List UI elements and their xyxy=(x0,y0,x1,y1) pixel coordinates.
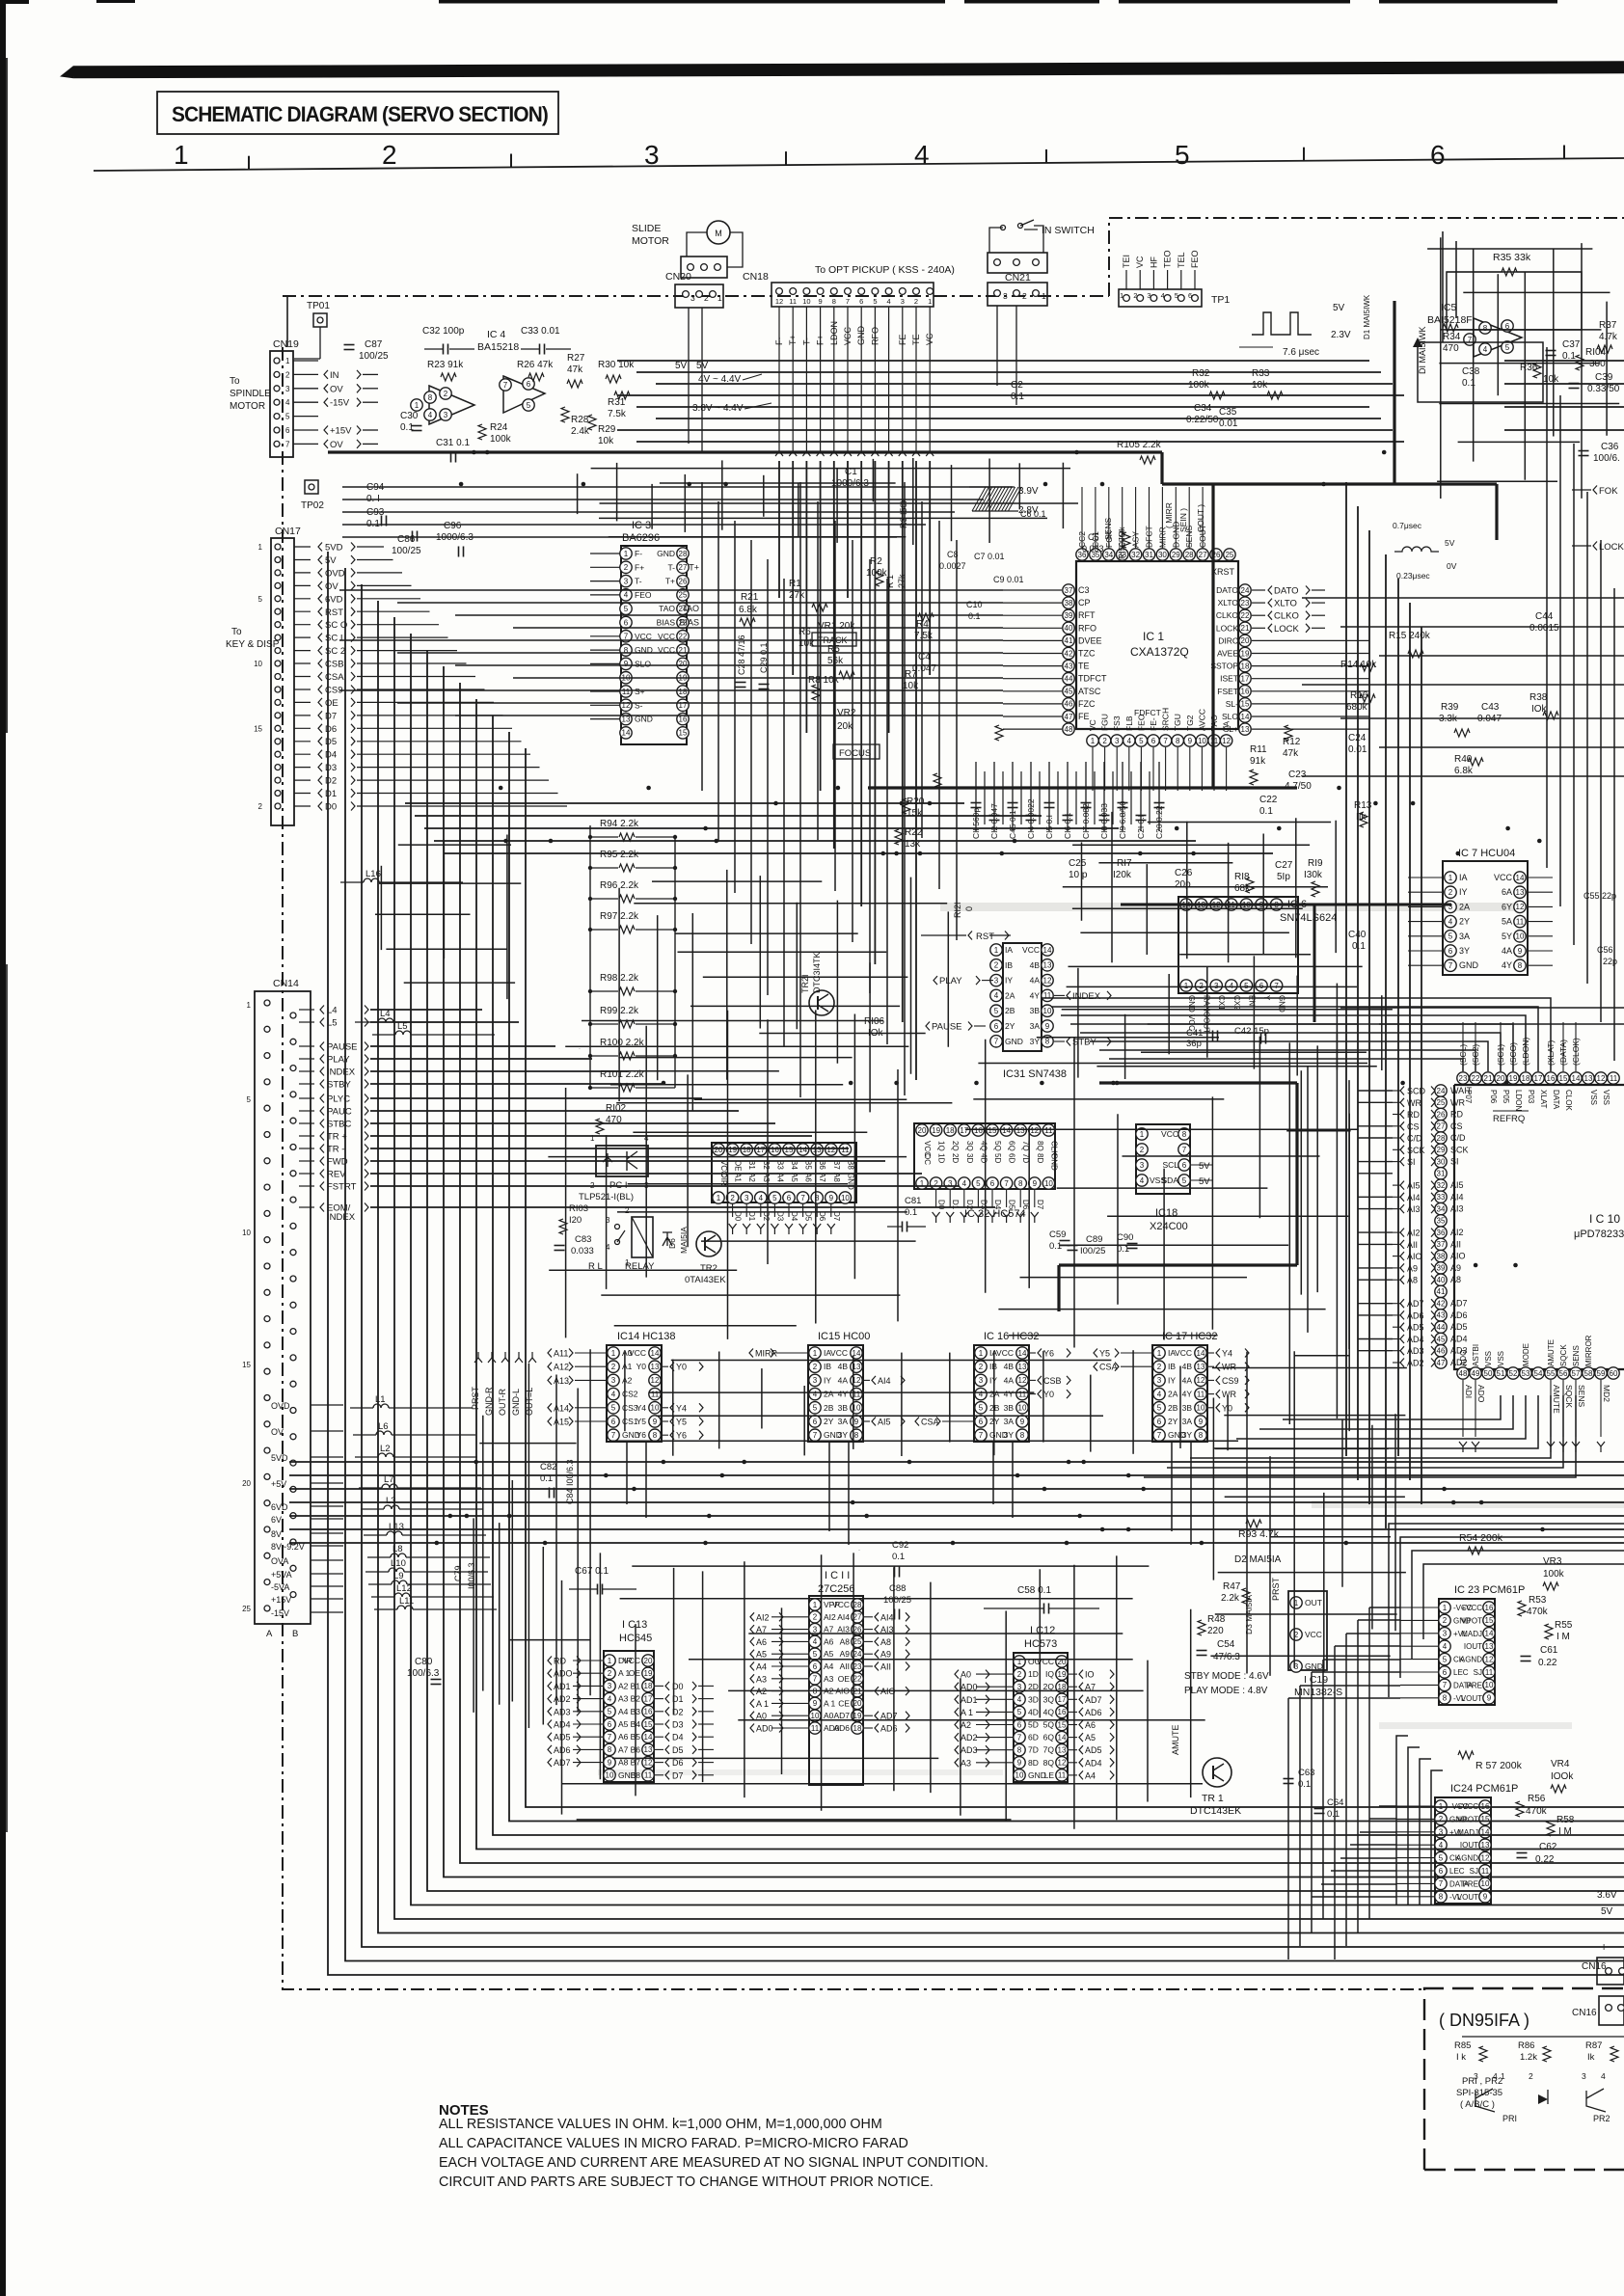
svg-text:3A: 3A xyxy=(1030,1021,1041,1031)
svg-text:1: 1 xyxy=(979,1349,984,1358)
svg-text:RI06: RI06 xyxy=(864,1016,885,1027)
svg-text:3Y: 3Y xyxy=(1004,1430,1015,1440)
svg-text:3: 3 xyxy=(1214,982,1219,990)
svg-text:10: 10 xyxy=(802,297,810,306)
svg-text:4B: 4B xyxy=(1004,1362,1015,1371)
svg-text:16: 16 xyxy=(1485,1604,1494,1612)
svg-text:A0: A0 xyxy=(961,1670,971,1680)
svg-text:R56: R56 xyxy=(1528,1794,1546,1804)
svg-text:R48: R48 xyxy=(1207,1614,1226,1625)
svg-text:PLAY: PLAY xyxy=(327,1055,350,1066)
svg-text:VCC: VCC xyxy=(832,1600,850,1609)
svg-text:17: 17 xyxy=(960,1126,968,1135)
svg-text:7.5k: 7.5k xyxy=(608,409,627,419)
svg-text:IQ: IQ xyxy=(1045,1669,1054,1679)
svg-text:VSS: VSS xyxy=(1589,1090,1598,1105)
svg-text:52: 52 xyxy=(1509,1369,1518,1378)
svg-text:15: 15 xyxy=(988,1126,997,1135)
svg-text:T+: T+ xyxy=(788,335,798,345)
svg-text:3: 3 xyxy=(611,1376,616,1385)
svg-text:PR2: PR2 xyxy=(1593,2114,1610,2123)
svg-text:6: 6 xyxy=(624,618,629,627)
svg-text:4: 4 xyxy=(1448,917,1453,926)
svg-text:2: 2 xyxy=(1133,291,1137,300)
svg-text:38: 38 xyxy=(1437,1252,1446,1260)
svg-text:7: 7 xyxy=(1017,1733,1022,1742)
svg-text:C79: C79 xyxy=(453,1565,463,1581)
svg-text:100/6.: 100/6. xyxy=(1593,453,1620,464)
svg-text:5A: 5A xyxy=(1502,917,1512,927)
svg-text:14: 14 xyxy=(1241,713,1250,721)
svg-text:WR: WR xyxy=(1450,1097,1465,1107)
svg-text:100k: 100k xyxy=(1188,380,1210,391)
svg-text:44: 44 xyxy=(1065,675,1073,684)
svg-text:12: 12 xyxy=(775,297,783,306)
svg-text:CS9: CS9 xyxy=(1222,1376,1239,1386)
svg-text:3: 3 xyxy=(624,577,629,585)
svg-text:3A: 3A xyxy=(1182,1417,1193,1426)
svg-text:27k: 27k xyxy=(789,590,805,601)
svg-text:C31 0.1: C31 0.1 xyxy=(436,438,470,448)
svg-text:8V: 8V xyxy=(271,1529,282,1539)
svg-text:3B: 3B xyxy=(838,1403,849,1413)
svg-text:43: 43 xyxy=(1437,1311,1446,1320)
svg-text:27C256: 27C256 xyxy=(818,1583,855,1595)
svg-text:μPD78233G: μPD78233G xyxy=(1574,1229,1624,1240)
svg-text:39: 39 xyxy=(1065,611,1073,620)
svg-text:OUT-R: OUT-R xyxy=(498,1389,507,1416)
svg-text:C2: C2 xyxy=(1011,380,1023,391)
svg-text:9: 9 xyxy=(1033,1179,1038,1188)
svg-text:IC 7 HCU04: IC 7 HCU04 xyxy=(1458,848,1515,859)
svg-text:25: 25 xyxy=(1225,551,1233,559)
svg-text:2Q: 2Q xyxy=(951,1141,960,1151)
svg-text:CIRCUIT AND PARTS ARE SUBJECT: CIRCUIT AND PARTS ARE SUBJECT TO CHANGE … xyxy=(439,2174,934,2190)
svg-text:REFRQ: REFRQ xyxy=(1493,1114,1525,1124)
svg-text:12: 12 xyxy=(1597,1074,1606,1083)
svg-text:LOCK: LOCK xyxy=(1599,542,1624,553)
svg-text:CN14: CN14 xyxy=(273,978,299,989)
svg-text:14: 14 xyxy=(1485,1630,1494,1638)
svg-text:1: 1 xyxy=(717,293,722,303)
svg-text:C10: C10 xyxy=(966,600,983,609)
svg-text:+VCC: +VCC xyxy=(1461,1604,1482,1612)
svg-text:AI5: AI5 xyxy=(878,1418,891,1427)
svg-text:48: 48 xyxy=(1459,1369,1468,1378)
svg-text:13: 13 xyxy=(813,1146,822,1154)
svg-text:PLAY: PLAY xyxy=(939,976,962,986)
svg-text:20: 20 xyxy=(644,1657,653,1665)
svg-text:5Q: 5Q xyxy=(993,1141,1002,1151)
svg-text:6: 6 xyxy=(1430,140,1446,170)
svg-text:A0: A0 xyxy=(824,1711,834,1720)
svg-text:100/25: 100/25 xyxy=(883,1595,911,1606)
svg-text:R24: R24 xyxy=(490,422,508,433)
svg-text:17: 17 xyxy=(1058,1695,1067,1704)
svg-text:470: 470 xyxy=(1443,343,1459,354)
svg-text:Y4: Y4 xyxy=(1222,1349,1232,1359)
svg-text:10: 10 xyxy=(1481,1879,1490,1888)
svg-text:5VD: 5VD xyxy=(325,543,343,554)
svg-text:11: 11 xyxy=(1197,1390,1205,1398)
svg-text:2: 2 xyxy=(258,802,263,811)
svg-text:0.1: 0.1 xyxy=(968,611,981,621)
svg-text:FGU: FGU xyxy=(1100,714,1110,731)
svg-text:I20: I20 xyxy=(569,1215,582,1226)
svg-text:A6: A6 xyxy=(618,1732,629,1742)
svg-text:TR 1: TR 1 xyxy=(1202,1793,1224,1804)
svg-text:15: 15 xyxy=(242,1361,251,1369)
svg-text:AD2: AD2 xyxy=(961,1733,978,1742)
svg-text:VCC: VCC xyxy=(843,326,853,345)
svg-text:10: 10 xyxy=(841,1194,850,1202)
svg-text:26: 26 xyxy=(1437,1110,1446,1119)
svg-text:R31: R31 xyxy=(608,397,626,408)
svg-text:AD7: AD7 xyxy=(833,1711,850,1720)
svg-text:11: 11 xyxy=(1610,1074,1618,1083)
svg-text:31: 31 xyxy=(1437,1170,1446,1178)
svg-text:8: 8 xyxy=(428,393,433,402)
svg-text:23: 23 xyxy=(1241,599,1250,608)
svg-text:5: 5 xyxy=(976,1179,981,1188)
svg-text:6VD: 6VD xyxy=(271,1502,288,1512)
svg-text:20: 20 xyxy=(1497,1074,1505,1083)
svg-text:14: 14 xyxy=(1002,1126,1011,1135)
svg-text:RD: RD xyxy=(554,1657,566,1666)
svg-text:TEL: TEL xyxy=(1177,252,1186,268)
svg-text:A6: A6 xyxy=(756,1637,767,1647)
svg-text:7: 7 xyxy=(611,1431,616,1440)
svg-text:AI2: AI2 xyxy=(1407,1229,1421,1238)
svg-text:11: 11 xyxy=(1018,1390,1027,1398)
svg-text:5: 5 xyxy=(527,401,531,410)
svg-text:C32 100p: C32 100p xyxy=(422,326,465,337)
svg-text:47: 47 xyxy=(1065,713,1073,721)
svg-text:17: 17 xyxy=(644,1694,653,1703)
svg-text:27: 27 xyxy=(1199,551,1207,559)
svg-text:C23: C23 xyxy=(1288,770,1307,780)
svg-text:12: 12 xyxy=(1058,1759,1067,1768)
svg-text:13: 13 xyxy=(1516,888,1525,897)
svg-text:TE: TE xyxy=(911,334,921,345)
svg-text:10: 10 xyxy=(1516,932,1525,941)
svg-text:FEO: FEO xyxy=(635,590,652,600)
svg-text:A1: A1 xyxy=(622,1362,633,1371)
svg-text:11: 11 xyxy=(1516,917,1525,926)
svg-text:T+: T+ xyxy=(689,562,699,572)
svg-text:2Y: 2Y xyxy=(1168,1417,1178,1426)
svg-text:0: 0 xyxy=(964,906,974,911)
svg-text:AI4: AI4 xyxy=(880,1612,894,1622)
svg-text:A4: A4 xyxy=(824,1661,834,1671)
svg-text:7: 7 xyxy=(813,1431,818,1440)
svg-text:5: 5 xyxy=(1443,1655,1448,1663)
svg-text:5: 5 xyxy=(1505,343,1510,352)
svg-text:4: 4 xyxy=(994,991,999,1000)
svg-text:R55: R55 xyxy=(1555,1620,1573,1631)
svg-text:D6: D6 xyxy=(672,1758,684,1768)
svg-text:10: 10 xyxy=(1018,1404,1027,1413)
svg-text:8: 8 xyxy=(1176,737,1180,745)
svg-text:5Y: 5Y xyxy=(1502,932,1512,941)
svg-text:56: 56 xyxy=(1559,1369,1568,1378)
svg-text:2Y: 2Y xyxy=(1005,1021,1015,1031)
svg-text:RI02: RI02 xyxy=(606,1103,627,1114)
svg-text:XLTO: XLTO xyxy=(1274,599,1297,609)
svg-text:1: 1 xyxy=(608,1657,612,1665)
svg-text:30: 30 xyxy=(1158,551,1167,559)
svg-text:51: 51 xyxy=(1497,1369,1505,1378)
svg-text:GND-L: GND-L xyxy=(511,1389,521,1416)
svg-text:33: 33 xyxy=(1437,1193,1446,1202)
svg-text:4Q: 4Q xyxy=(1043,1707,1055,1716)
svg-text:AI5: AI5 xyxy=(1450,1180,1464,1190)
svg-text:8: 8 xyxy=(1020,1431,1025,1440)
svg-text:18: 18 xyxy=(679,688,688,696)
svg-text:14: 14 xyxy=(1572,1074,1581,1083)
svg-text:A11: A11 xyxy=(554,1349,568,1359)
svg-text:14: 14 xyxy=(1197,1349,1205,1358)
svg-text:16: 16 xyxy=(771,1146,779,1154)
svg-text:5: 5 xyxy=(772,1194,777,1202)
svg-text:TG2: TG2 xyxy=(1185,715,1195,731)
svg-text:6Q: 6Q xyxy=(1043,1733,1055,1742)
svg-text:C89: C89 xyxy=(1086,1234,1102,1245)
svg-text:C55 22p: C55 22p xyxy=(1583,891,1616,901)
svg-text:5: 5 xyxy=(813,1650,818,1659)
svg-text:A3: A3 xyxy=(618,1694,629,1704)
svg-text:LOCK: LOCK xyxy=(1216,623,1238,633)
svg-text:ADI: ADI xyxy=(1464,1385,1474,1398)
svg-text:5D: 5D xyxy=(993,1153,1002,1163)
svg-text:R27: R27 xyxy=(567,353,585,364)
svg-text:36p: 36p xyxy=(1186,1039,1202,1049)
svg-text:8D: 8D xyxy=(1036,1153,1044,1163)
svg-text:3B: 3B xyxy=(1004,1403,1015,1413)
svg-text:3: 3 xyxy=(901,297,905,306)
svg-text:ALL RESISTANCE VALUES IN OHM.: ALL RESISTANCE VALUES IN OHM. k=1,000 OH… xyxy=(439,2117,882,2132)
svg-text:C54: C54 xyxy=(1217,1639,1235,1650)
svg-text:10k: 10k xyxy=(598,436,614,446)
svg-text:48: 48 xyxy=(1065,725,1073,734)
svg-text:3D: 3D xyxy=(1028,1694,1039,1704)
svg-text:1: 1 xyxy=(285,357,290,365)
svg-text:2: 2 xyxy=(1199,982,1204,990)
svg-text:-15V: -15V xyxy=(271,1608,289,1618)
svg-text:5VD: 5VD xyxy=(271,1453,288,1463)
svg-text:R37: R37 xyxy=(1599,320,1617,331)
svg-text:2A: 2A xyxy=(1459,902,1470,911)
svg-text:12: 12 xyxy=(1481,1853,1490,1862)
svg-text:CN17: CN17 xyxy=(275,526,301,537)
svg-text:15: 15 xyxy=(1559,1074,1568,1083)
svg-text:10: 10 xyxy=(651,1404,660,1413)
svg-text:A9: A9 xyxy=(1450,1263,1461,1273)
svg-text:21: 21 xyxy=(1241,624,1250,633)
svg-text:8: 8 xyxy=(1045,1038,1050,1046)
svg-text:C67 0.1: C67 0.1 xyxy=(575,1566,609,1577)
svg-text:SL+: SL+ xyxy=(1224,724,1238,734)
svg-text:TEI: TEI xyxy=(1122,255,1131,268)
svg-text:9: 9 xyxy=(1188,737,1193,745)
svg-text:VCC: VCC xyxy=(1161,1129,1178,1139)
svg-text:R33: R33 xyxy=(1252,368,1270,379)
svg-text:VPOT: VPOT xyxy=(1457,1815,1478,1823)
svg-text:A4: A4 xyxy=(756,1662,767,1672)
svg-text:11: 11 xyxy=(841,1146,850,1154)
svg-text:REV: REV xyxy=(327,1170,346,1180)
svg-text:16: 16 xyxy=(1547,1074,1556,1083)
svg-text:C7 0.01: C7 0.01 xyxy=(974,552,1005,561)
svg-text:22: 22 xyxy=(1241,611,1250,620)
svg-text:2: 2 xyxy=(813,1363,818,1371)
svg-text:+5VA: +5VA xyxy=(271,1570,292,1580)
svg-text:IO: IO xyxy=(1085,1670,1095,1680)
svg-text:2: 2 xyxy=(1140,1146,1145,1154)
svg-text:LEC: LEC xyxy=(1453,1668,1469,1677)
svg-text:50: 50 xyxy=(1484,1369,1493,1378)
svg-text:16: 16 xyxy=(974,1126,983,1135)
svg-text:10: 10 xyxy=(1015,1771,1024,1780)
svg-text:19: 19 xyxy=(932,1126,940,1135)
svg-text:14: 14 xyxy=(1043,946,1052,955)
svg-text:VC: VC xyxy=(1088,719,1097,731)
svg-text:+5V: +5V xyxy=(271,1479,286,1489)
svg-text:0V: 0V xyxy=(1447,561,1457,571)
svg-text:A8: A8 xyxy=(840,1636,851,1646)
svg-text:10 p: 10 p xyxy=(1069,870,1088,880)
svg-text:0.23μsec: 0.23μsec xyxy=(1396,571,1430,581)
svg-text:4: 4 xyxy=(1443,1642,1448,1651)
svg-text:2.2k: 2.2k xyxy=(1221,1593,1240,1604)
svg-text:T-: T- xyxy=(801,338,811,345)
svg-text:SLIDE: SLIDE xyxy=(632,223,661,234)
svg-text:9: 9 xyxy=(624,660,629,668)
svg-text:4Y: 4Y xyxy=(1182,1390,1193,1399)
svg-text:A6: A6 xyxy=(1085,1720,1096,1730)
svg-text:SEIN ): SEIN ) xyxy=(1178,508,1188,532)
svg-text:AMUTE: AMUTE xyxy=(1552,1385,1561,1414)
svg-text:HC573: HC573 xyxy=(1024,1638,1057,1650)
svg-text:Y6: Y6 xyxy=(636,1430,647,1440)
svg-text:10: 10 xyxy=(1197,1404,1205,1413)
svg-text:IOOk: IOOk xyxy=(1551,1771,1574,1782)
svg-text:LE: LE xyxy=(1044,1770,1055,1780)
svg-text:15: 15 xyxy=(785,1146,794,1154)
svg-text:C90: C90 xyxy=(1117,1232,1133,1243)
svg-text:IA: IA xyxy=(1005,945,1013,955)
svg-text:I M: I M xyxy=(1556,1632,1570,1642)
svg-text:IB: IB xyxy=(1168,1362,1176,1371)
svg-text:470k: 470k xyxy=(1527,1607,1549,1617)
svg-text:7: 7 xyxy=(846,297,850,306)
svg-text:2: 2 xyxy=(1448,888,1453,897)
svg-text:0.1: 0.1 xyxy=(400,422,414,433)
svg-text:R11: R11 xyxy=(1250,744,1267,755)
svg-text:6A: 6A xyxy=(1502,887,1512,897)
svg-text:XLTO: XLTO xyxy=(1218,598,1239,608)
svg-text:C82: C82 xyxy=(540,1462,556,1472)
svg-text:27: 27 xyxy=(853,1613,862,1622)
svg-text:C26: C26 xyxy=(1175,868,1193,878)
svg-text:A5: A5 xyxy=(1085,1733,1096,1742)
svg-text:AI3: AI3 xyxy=(837,1625,850,1634)
svg-text:5: 5 xyxy=(1439,1853,1444,1862)
svg-text:AD6: AD6 xyxy=(833,1723,850,1733)
svg-text:8Q: 8Q xyxy=(1036,1141,1044,1151)
svg-text:100/6.3: 100/6.3 xyxy=(407,1668,440,1679)
svg-text:4Y: 4Y xyxy=(838,1390,849,1399)
svg-text:IC14 HC138: IC14 HC138 xyxy=(617,1331,676,1342)
svg-text:3: 3 xyxy=(285,385,290,393)
svg-text:9: 9 xyxy=(819,297,823,306)
svg-text:3: 3 xyxy=(1147,291,1150,300)
svg-text:4: 4 xyxy=(1601,2071,1606,2081)
svg-text:3: 3 xyxy=(1474,2071,1478,2081)
svg-text:3A: 3A xyxy=(1004,1417,1015,1426)
svg-text:F-: F- xyxy=(635,549,642,558)
svg-text:SJ: SJ xyxy=(1474,1668,1482,1677)
svg-text:RI2I: RI2I xyxy=(953,902,962,918)
svg-text:FS3: FS3 xyxy=(1112,716,1122,731)
svg-text:14: 14 xyxy=(622,729,631,738)
svg-text:3: 3 xyxy=(813,1376,818,1385)
svg-text:SSTOP: SSTOP xyxy=(1210,662,1238,671)
svg-text:F+: F+ xyxy=(635,562,644,572)
svg-text:OUT: OUT xyxy=(1305,1598,1322,1607)
svg-text:2: 2 xyxy=(1439,1815,1444,1823)
svg-text:AGND: AGND xyxy=(1460,1656,1482,1664)
svg-text:6Y: 6Y xyxy=(1502,902,1512,911)
svg-text:I k: I k xyxy=(1456,2052,1466,2063)
svg-text:ALL CAPACITANCE VALUES IN MICR: ALL CAPACITANCE VALUES IN MICRO FARAD. P… xyxy=(439,2136,908,2151)
svg-text:OV: OV xyxy=(330,440,343,450)
svg-text:EACH VOLTAGE AND CURRENT ARE M: EACH VOLTAGE AND CURRENT ARE MEASURED AT… xyxy=(439,2155,988,2171)
svg-text:CP: CP xyxy=(1078,598,1091,608)
svg-text:OE: OE xyxy=(838,1674,851,1684)
svg-text:21: 21 xyxy=(1484,1074,1493,1083)
svg-text:MOTOR: MOTOR xyxy=(632,235,669,247)
svg-text:VOUT: VOUT xyxy=(1457,1893,1478,1902)
svg-text:PRST: PRST xyxy=(471,1386,480,1410)
svg-text:C92: C92 xyxy=(892,1540,908,1551)
svg-text:R35 33k: R35 33k xyxy=(1493,252,1531,263)
svg-text:+15V: +15V xyxy=(330,426,352,437)
svg-text:I00/6.3: I00/6.3 xyxy=(467,1562,476,1589)
svg-text:9: 9 xyxy=(813,1699,818,1708)
svg-text:1: 1 xyxy=(415,401,420,410)
svg-text:R2: R2 xyxy=(870,556,882,567)
svg-text:( DN95IFA ): ( DN95IFA ) xyxy=(1439,2011,1529,2030)
svg-text:8Q: 8Q xyxy=(1043,1758,1055,1768)
svg-text:1: 1 xyxy=(1157,1349,1162,1358)
svg-text:22: 22 xyxy=(1472,1074,1480,1083)
svg-text:1: 1 xyxy=(247,1001,252,1010)
svg-text:39: 39 xyxy=(1437,1264,1446,1273)
svg-text:3Y: 3Y xyxy=(1459,946,1470,956)
svg-text:12: 12 xyxy=(1043,976,1052,985)
svg-text:AI5: AI5 xyxy=(1407,1181,1421,1191)
svg-text:4B: 4B xyxy=(1182,1362,1193,1371)
svg-text:18: 18 xyxy=(853,1724,862,1733)
svg-text:40: 40 xyxy=(1437,1276,1446,1284)
svg-text:AD1: AD1 xyxy=(961,1695,978,1705)
svg-text:4: 4 xyxy=(608,1694,612,1703)
svg-text:6: 6 xyxy=(1151,737,1156,745)
svg-text:IC 4: IC 4 xyxy=(487,329,505,340)
svg-text:2Y: 2Y xyxy=(824,1417,834,1426)
svg-text:AVCC: AVCC xyxy=(1197,709,1206,731)
